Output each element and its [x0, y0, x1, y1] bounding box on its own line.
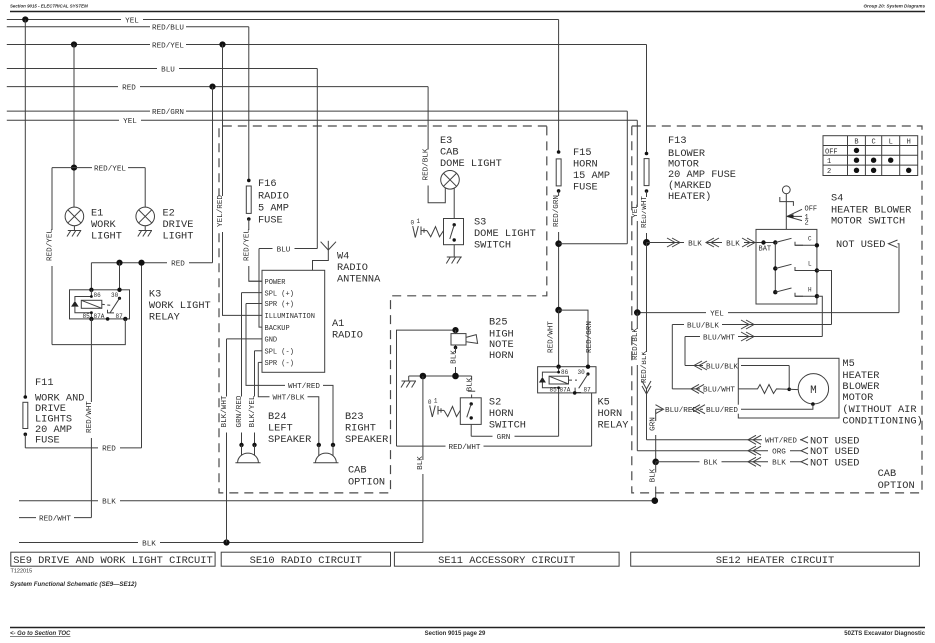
svg-text:RED/BLK: RED/BLK [632, 328, 640, 360]
relay K3 pin numbers [83, 292, 124, 320]
fuse F11 body [23, 402, 28, 428]
wire ground bus line A BLK [19, 496, 655, 506]
speaker B24 terminal dots [239, 443, 243, 447]
wire BLK down to ground bus A [650, 462, 661, 501]
node dot RED/YEL bus x74 [71, 41, 77, 47]
node dot heater feed split [643, 239, 650, 246]
svg-text:WORK LIGHT: WORK LIGHT [149, 300, 211, 312]
svg-text:BLK: BLK [772, 460, 786, 468]
connector chevron ORG [748, 446, 761, 455]
svg-text:BLK: BLK [467, 377, 475, 391]
svg-text:RADIO: RADIO [332, 330, 363, 342]
wire F15 out RED/GRN down [553, 191, 563, 310]
node dot RED bus x212.5 [209, 84, 215, 90]
svg-text:NOT USED: NOT USED [836, 239, 885, 251]
wire riser x141.5 RED line to RED row [141, 263, 143, 448]
svg-text:RED/YEL: RED/YEL [243, 229, 251, 261]
wire GRN from S2 to K5 [471, 432, 558, 442]
svg-text:1: 1 [417, 218, 421, 225]
wire riser to horn row [397, 330, 456, 446]
svg-text:SPR (+): SPR (+) [265, 301, 294, 309]
wire SPL+ GRN/RED down to B24 [236, 293, 246, 445]
svg-text:BACKUP: BACKUP [265, 325, 290, 333]
svg-text:YEL: YEL [710, 310, 724, 318]
fuse F16 label [258, 178, 289, 227]
svg-text:HORN: HORN [489, 408, 514, 420]
svg-text:B: B [854, 139, 858, 147]
wire BLU/BLK upper row [672, 320, 831, 330]
svg-text:H: H [808, 286, 812, 293]
node dot YEL bus x25 [22, 16, 28, 22]
connector chevron BLU/BLK lower [694, 361, 707, 370]
radio pin SPL (+) [242, 290, 294, 298]
svg-text:K5: K5 [598, 397, 610, 409]
fuse F13 label [668, 135, 736, 203]
radio pin SPR (+) [246, 301, 294, 309]
relay K5 pin dots top [556, 365, 560, 369]
fuse F11 label [35, 377, 84, 446]
wire ground bus line B BLK [19, 538, 423, 548]
svg-text:RED/YEL: RED/YEL [47, 229, 55, 261]
wire BLK horn to switch row [451, 348, 461, 377]
svg-text:BLK: BLK [451, 350, 459, 364]
wire BLU bus down to radio [316, 69, 318, 249]
wire E2 drop [144, 168, 146, 208]
label K5 HORN RELAY [598, 397, 629, 432]
svg-text:SPL (-): SPL (-) [265, 349, 294, 357]
relay K5 contact [569, 372, 590, 392]
ground E1 [67, 226, 81, 237]
wire horn ground row [409, 375, 472, 377]
svg-text:RED/YEL: RED/YEL [94, 165, 126, 173]
svg-text:DOME LIGHT: DOME LIGHT [440, 158, 502, 170]
wire RED bus down to relay row [212, 87, 214, 263]
wire BLU/BLK drop to motor junction [788, 366, 790, 390]
speaker B23 [313, 445, 338, 463]
SE10 circuit title box [221, 552, 390, 567]
svg-text:LIGHT: LIGHT [163, 231, 194, 243]
wire F13 out RED/WHT down [641, 191, 651, 243]
label K3 [149, 289, 211, 324]
svg-text:GND: GND [265, 337, 278, 345]
blower motor M5 box [738, 358, 839, 418]
svg-text:BLU: BLU [277, 246, 291, 254]
label E2 [163, 208, 194, 243]
connector tick above S2 [468, 390, 475, 392]
svg-text:1: 1 [434, 398, 438, 405]
svg-text:RIGHT: RIGHT [345, 423, 376, 435]
svg-text:OFF: OFF [825, 148, 838, 156]
svg-text:87: 87 [116, 313, 124, 320]
footer rule [10, 627, 925, 629]
svg-text:M5: M5 [842, 358, 854, 370]
label A1 RADIO [332, 318, 363, 342]
relay K3 pin dots top [89, 288, 93, 292]
wire YEL/RED illumination drop from RED/YEL bus [217, 45, 262, 316]
wire BLK not used [656, 457, 801, 467]
wire lamp to switch S3 [453, 188, 455, 219]
label CAB OPTION (heater) [878, 468, 915, 492]
wire WHT/RED not used [647, 435, 802, 445]
wire bus YEL (lower) [7, 116, 638, 126]
wire bus YEL (top) [7, 15, 559, 25]
label E3 CAB DOME LIGHT [440, 135, 502, 170]
svg-text:C: C [871, 139, 875, 147]
wire GRN drop from BLU/RED to BLK row [650, 409, 661, 462]
wire BLU/BLK lower row into M5 [685, 361, 789, 371]
node dot F15 branch to RED/GRN bus riser [555, 240, 562, 247]
S4 position labels OFF 1 2 [787, 206, 818, 228]
SE9 circuit title box [11, 552, 215, 567]
S4 contact H [795, 286, 819, 298]
connector chevron BLU/WHT upper [741, 332, 754, 341]
svg-text:F15: F15 [573, 147, 592, 159]
wire BLU/WHT upper row [685, 332, 822, 342]
node dot motor junction [787, 388, 791, 392]
svg-text:L: L [889, 139, 893, 147]
svg-text:SWITCH: SWITCH [474, 240, 511, 252]
svg-text:86: 86 [94, 292, 102, 299]
wire RED/WHT down to K5 86 [547, 310, 558, 367]
svg-text:RED/BLK: RED/BLK [423, 148, 431, 180]
svg-text:BLK: BLK [142, 540, 156, 548]
label M5 HEATER BLOWER MOTOR [842, 358, 922, 428]
switch S2 contact [467, 402, 473, 419]
wire RED/GRN bus riser [626, 111, 628, 244]
cab option dashed boundary (heater) [632, 126, 922, 493]
svg-text:SE11 ACCESSORY CIRCUIT: SE11 ACCESSORY CIRCUIT [438, 555, 575, 567]
S4 wipers [775, 238, 791, 292]
svg-text:BLK/YEL: BLK/YEL [249, 395, 257, 427]
wire S4 L out to BLU/BLK [817, 271, 832, 325]
svg-text:E3: E3 [440, 135, 452, 147]
radio A1 connector box [262, 270, 325, 372]
svg-text:RELAY: RELAY [149, 312, 180, 324]
svg-text:CAB: CAB [348, 465, 367, 477]
radio pin GND [227, 337, 278, 345]
wire YEL row to not-used C [637, 308, 899, 318]
wire bus RED/YEL [7, 40, 647, 50]
relay K5 87A stub dot [573, 391, 577, 395]
horn B25 lower terminal dot [454, 346, 458, 350]
wire YEL bus down to F15 [558, 20, 560, 153]
svg-text:E2: E2 [163, 208, 175, 220]
svg-text:B24: B24 [268, 411, 287, 423]
wire across to RED/GRN bus riser [559, 243, 628, 245]
wire down to ground [408, 376, 410, 381]
svg-text:RED/WHT: RED/WHT [449, 444, 481, 452]
wire S4 H out to BLU/WHT [817, 296, 822, 336]
svg-text:SPEAKER: SPEAKER [268, 434, 311, 446]
horn B25 [451, 330, 478, 347]
ground horn row [401, 381, 416, 388]
svg-text:M: M [810, 385, 817, 397]
connector chevrons BLU/RED [656, 405, 706, 414]
wire to K3 pin 86 [90, 263, 92, 290]
arrow + label NOT USED (WHT/RED) [801, 435, 859, 447]
lamp E3 cab dome light [441, 171, 460, 190]
svg-text:Section 9015 page 29: Section 9015 page 29 [425, 631, 486, 637]
svg-text:HORN: HORN [573, 159, 598, 171]
speaker B24 [235, 445, 260, 463]
svg-text:BLK: BLK [726, 240, 740, 248]
SE11 circuit title box [394, 552, 619, 567]
connector chevrons on BLK wire [667, 238, 755, 247]
svg-text:L: L [808, 261, 812, 268]
svg-text:0: 0 [411, 220, 415, 227]
fuse F15 label [573, 147, 610, 194]
label B25 HIGH NOTE HORN [489, 317, 514, 363]
fuse F15 body [556, 159, 561, 186]
wire K3 output riser x52 with RED/YEL label [47, 168, 57, 345]
svg-text:Group 20: System Diagrams: Group 20: System Diagrams [863, 4, 925, 9]
wire BLU/WHT lower row into M5 [672, 384, 755, 394]
fuse F13 terminal dots [645, 152, 649, 156]
relay K3 contact [102, 297, 121, 313]
table row labels OFF 1 2 [825, 148, 838, 176]
svg-text:H: H [907, 139, 911, 147]
label B23 RIGHT SPEAKER [345, 411, 388, 446]
svg-text:WORK: WORK [91, 219, 117, 231]
fuse F13 body [644, 159, 649, 186]
svg-text:WHT/RED: WHT/RED [288, 383, 320, 391]
arrow + label NOT USED (ORG) [801, 446, 859, 458]
relay K3 87A stub dot [106, 317, 110, 321]
node dot ground row x455.5 [452, 373, 459, 380]
switch S2 box [460, 398, 481, 425]
node dot BLK/GRN junction [652, 459, 659, 466]
S4 feed wire inside box [756, 242, 775, 244]
relay K3 box [70, 290, 130, 319]
svg-text:B25: B25 [489, 317, 508, 329]
label S3 DOME LIGHT SWITCH [474, 217, 536, 252]
svg-text:F16: F16 [258, 178, 277, 190]
label CAB OPTION (radio) [348, 465, 385, 489]
svg-text:YEL: YEL [632, 204, 640, 218]
node dot K5 feed split [555, 307, 562, 314]
svg-text:RED: RED [102, 446, 116, 454]
wire motor return BLU/RED [656, 405, 813, 416]
svg-text:SWITCH: SWITCH [489, 420, 526, 432]
svg-text:CAB: CAB [440, 147, 459, 159]
wire RED/YEL bus down to F13 [646, 45, 648, 154]
svg-text:BLK: BLK [417, 456, 425, 470]
svg-text:30: 30 [578, 369, 586, 376]
wire RED/BLK continuation of F13 branch down [641, 243, 651, 440]
svg-text:YEL: YEL [123, 118, 137, 126]
wire RED/YEL lamp row [52, 163, 145, 173]
wire F16 to radio POWER, RED/YEL [243, 219, 262, 281]
svg-text:POWER: POWER [265, 279, 287, 287]
connector chevron BLU/WHT lower [691, 384, 704, 393]
svg-text:A1: A1 [332, 318, 344, 330]
svg-text:RED/WHT: RED/WHT [641, 196, 649, 228]
header rule [10, 11, 925, 13]
svg-text:K3: K3 [149, 289, 161, 301]
svg-text:SPR (-): SPR (-) [265, 360, 294, 368]
svg-text:FUSE: FUSE [573, 182, 598, 194]
S4 contact L [795, 261, 819, 273]
S4 knob [780, 186, 794, 229]
svg-text:87A: 87A [94, 313, 105, 320]
fuse F16 terminal dots [247, 179, 251, 183]
wire BLK down to S2 [467, 376, 477, 398]
switch S3 contact [450, 223, 456, 242]
svg-text:F13: F13 [668, 135, 687, 147]
fuse F11 terminal dots [24, 395, 28, 399]
node dot RED/YEL bus x222.5 [219, 41, 225, 47]
svg-text:HEATER): HEATER) [668, 191, 711, 203]
node dot YEL row [634, 309, 641, 316]
wire F11 out down [24, 434, 26, 448]
resistor in M5 [755, 385, 789, 394]
switch S2 actuator [428, 398, 460, 418]
svg-text:BLU/BLK: BLU/BLK [687, 322, 719, 330]
wire K3 85 down RED/WHT [86, 319, 96, 518]
wire to K3 pin 30 [119, 263, 121, 290]
svg-text:SE12 HEATER CIRCUIT: SE12 HEATER CIRCUIT [716, 555, 834, 567]
svg-text:LIGHT: LIGHT [91, 231, 122, 243]
wire RED relay feed row [91, 258, 212, 268]
wire junction to motor [789, 388, 798, 390]
svg-text:1: 1 [827, 158, 831, 166]
wire K5 87 down [591, 393, 593, 446]
node dot ground row x422.9 [420, 373, 427, 380]
label B24 LEFT SPEAKER [268, 411, 311, 446]
svg-text:E1: E1 [91, 208, 103, 220]
node dot ground bus A end [652, 497, 659, 504]
svg-text:RED: RED [171, 261, 185, 269]
svg-text:30: 30 [111, 292, 119, 299]
svg-text:S4: S4 [831, 193, 843, 205]
cab option dashed boundary (radio + dome light) [219, 126, 547, 493]
wire RED from F11 to riser [25, 443, 141, 453]
svg-text:RED/BLU: RED/BLU [152, 25, 184, 33]
label S2 HORN SWITCH [489, 397, 526, 432]
svg-text:SPL (+): SPL (+) [265, 290, 294, 298]
svg-text:YEL/RED: YEL/RED [217, 195, 225, 227]
svg-text:HORN: HORN [489, 350, 514, 362]
wire SPR+ WHT/RED over to B23 [246, 304, 333, 445]
switch S3 box [444, 219, 464, 245]
node dot line B speaker ground [223, 539, 229, 545]
svg-text:ANTENNA: ANTENNA [337, 274, 381, 286]
svg-text:FUSE: FUSE [258, 215, 283, 227]
relay K5 pin numbers [550, 369, 592, 394]
svg-text:BLU/RED: BLU/RED [665, 407, 697, 415]
svg-text:0: 0 [428, 399, 432, 406]
wire not-used C riser and arrow [889, 240, 900, 313]
svg-text:NOT USED: NOT USED [810, 457, 859, 469]
svg-text:S3: S3 [474, 217, 486, 229]
svg-text:OFF: OFF [805, 206, 818, 214]
svg-text:<- Go to Section TOC: <- Go to Section TOC [10, 631, 71, 637]
table dots [854, 148, 912, 173]
wire K3 87 loop to lamp riser [52, 319, 125, 345]
svg-text:BLU/RED: BLU/RED [706, 407, 738, 415]
radio pin SPL (-) [255, 349, 294, 357]
svg-text:DOME LIGHT: DOME LIGHT [474, 228, 536, 240]
svg-text:BLK: BLK [704, 460, 718, 468]
svg-text:BLK: BLK [650, 468, 658, 482]
wire YEL bus riser down [632, 120, 642, 312]
svg-text:85: 85 [83, 313, 91, 320]
wire RED/BLK continuation of YEL riser down [632, 313, 642, 451]
svg-text:DRIVE: DRIVE [163, 219, 194, 231]
S4 contact C [795, 236, 819, 248]
svg-text:RED/YEL: RED/YEL [152, 42, 184, 50]
wire outer elbow (BLU/BLK to BLU/WHT lower) [671, 325, 673, 389]
svg-text:SPEAKER: SPEAKER [345, 434, 388, 446]
svg-text:SE9 DRIVE AND WORK LIGHT CIRCU: SE9 DRIVE AND WORK LIGHT CIRCUIT [13, 555, 213, 567]
wire SPL- BLK/YEL down to B24 [249, 351, 259, 445]
radio pin SPR (-) [258, 360, 294, 368]
svg-text:BLU/WHT: BLU/WHT [703, 334, 735, 342]
svg-text:RED/GRN: RED/GRN [152, 109, 184, 117]
svg-text:GRN: GRN [650, 417, 658, 431]
connector chevron BLU/BLK upper [741, 320, 754, 329]
relay K5 box [538, 367, 596, 393]
svg-text:BLK/WHT: BLK/WHT [221, 395, 229, 427]
svg-text:RED/GRN: RED/GRN [586, 321, 594, 353]
svg-text:RELAY: RELAY [598, 420, 629, 432]
svg-text:GRN/RED: GRN/RED [236, 395, 244, 427]
SE12 circuit title box [631, 552, 920, 567]
svg-text:87A: 87A [560, 387, 571, 394]
svg-text:BLK: BLK [688, 240, 702, 248]
wire RED/GRN over and down to K5 30 [559, 310, 595, 367]
wire RED/WHT horn feed [397, 442, 592, 452]
svg-text:S2: S2 [489, 397, 501, 409]
svg-text:F11: F11 [35, 377, 54, 389]
S4 feed dots [761, 240, 765, 244]
svg-text:CAB: CAB [878, 468, 897, 480]
speaker B23 terminal dots [317, 443, 321, 447]
svg-text:BLU: BLU [161, 66, 175, 74]
svg-text:BAT: BAT [759, 246, 772, 254]
node dot RED row x141.5 [138, 260, 144, 266]
ground E2 [138, 226, 152, 237]
wire ORG not used [637, 446, 801, 456]
svg-text:WHT/BLK: WHT/BLK [273, 395, 305, 403]
svg-text:BLU/BLK: BLU/BLK [706, 363, 738, 371]
wire K5 85 down to GRN [558, 393, 560, 436]
svg-text:MOTOR SWITCH: MOTOR SWITCH [831, 216, 905, 228]
svg-text:WHT/RED: WHT/RED [765, 438, 797, 446]
svg-text:CONDITIONING): CONDITIONING) [842, 416, 922, 428]
svg-text:RED/WHT: RED/WHT [39, 515, 71, 523]
svg-text:B23: B23 [345, 411, 364, 423]
wire bus BLU [7, 64, 318, 74]
connector chevron on F13 branch [642, 381, 651, 394]
svg-text:BLK: BLK [102, 499, 116, 507]
svg-text:LEFT: LEFT [268, 423, 293, 435]
svg-text:2: 2 [805, 219, 809, 227]
switch S3 actuator [411, 218, 444, 238]
svg-text:HORN: HORN [598, 408, 623, 420]
radio pin POWER [249, 279, 286, 287]
switch S4 box [756, 229, 817, 304]
wire BLU to SPL+/BACKUP [259, 249, 262, 328]
arrow + label NOT USED (BLK) [801, 457, 859, 469]
svg-text:(WITHOUT AIR: (WITHOUT AIR [842, 404, 916, 416]
wire BLK ground drop to line B [417, 376, 428, 543]
svg-text:MOTOR: MOTOR [842, 392, 873, 404]
svg-text:50ZTS Excavator Diagnostic: 50ZTS Excavator Diagnostic [844, 631, 925, 637]
relay K3 coil [71, 290, 102, 319]
lamp E2 drive light [136, 207, 155, 226]
svg-text:RED/BLK: RED/BLK [641, 351, 649, 383]
